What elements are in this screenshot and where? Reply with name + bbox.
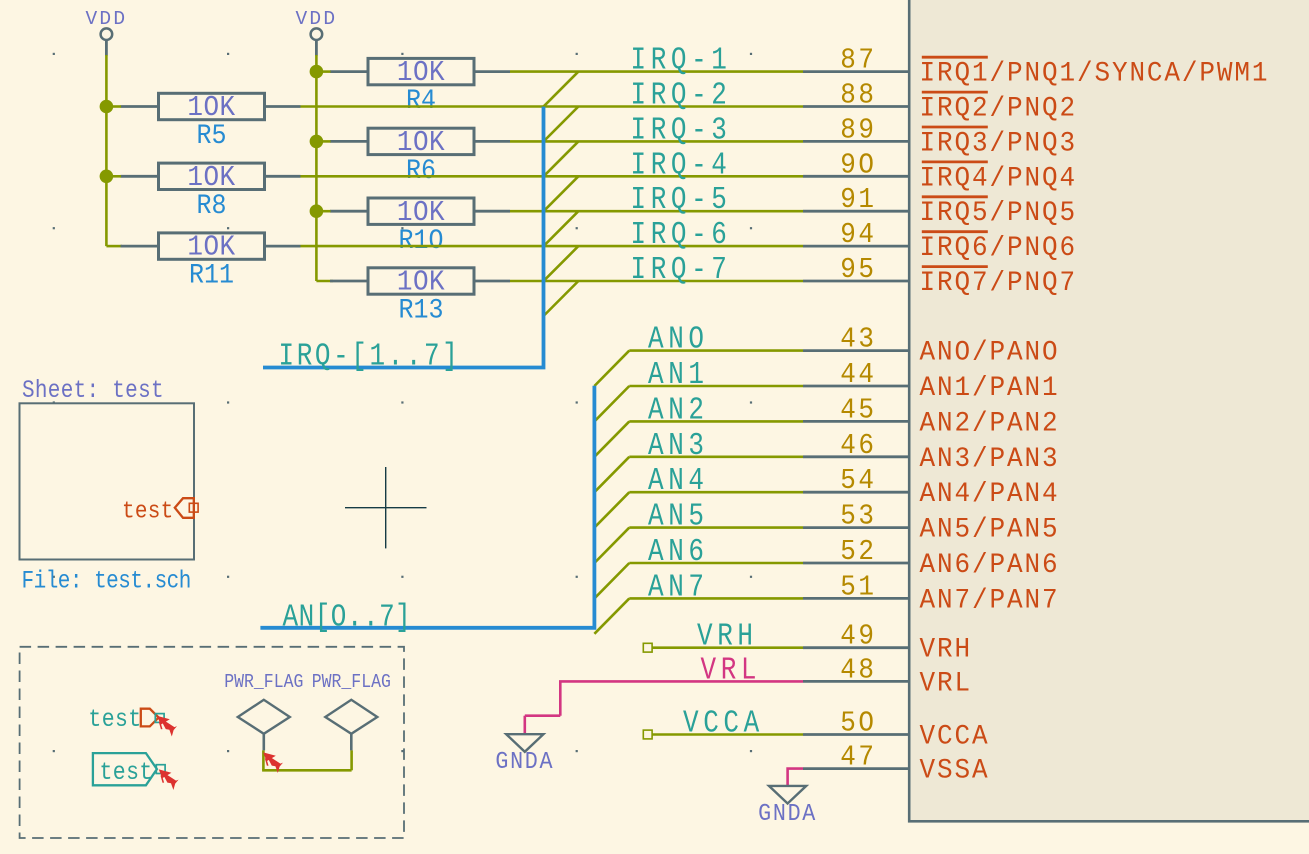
svg-text:AN2/PAN2: AN2/PAN2	[920, 408, 1060, 440]
svg-text:GNDA: GNDA	[495, 748, 554, 775]
svg-text:File: test.sch: File: test.sch	[22, 567, 191, 595]
svg-text:53: 53	[840, 501, 876, 533]
svg-text:VSSA: VSSA	[920, 755, 990, 787]
svg-text:IRQ4/PNQ4: IRQ4/PNQ4	[920, 162, 1077, 194]
svg-text:test: test	[100, 759, 153, 787]
svg-text:ANO: ANO	[648, 322, 709, 358]
svg-text:AN1: AN1	[648, 357, 709, 393]
svg-text:AN7: AN7	[648, 569, 709, 605]
svg-text:IRQ-[1..7]: IRQ-[1..7]	[279, 338, 461, 374]
svg-text:IRQ-1: IRQ-1	[631, 43, 732, 79]
svg-text:46: 46	[840, 430, 876, 462]
svg-text:95: 95	[840, 254, 876, 286]
svg-text:VDD: VDD	[296, 8, 338, 30]
svg-text:52: 52	[840, 536, 876, 568]
svg-text:43: 43	[840, 324, 876, 356]
svg-text:AN2: AN2	[648, 392, 709, 428]
svg-text:VDD: VDD	[86, 8, 128, 30]
svg-text:VCCA: VCCA	[920, 721, 990, 753]
svg-text:R13: R13	[399, 294, 444, 326]
svg-text:R1O: R1O	[399, 225, 444, 257]
svg-text:44: 44	[840, 359, 876, 391]
svg-text:51: 51	[840, 571, 876, 603]
svg-text:49: 49	[840, 621, 876, 653]
svg-text:IRQ-5: IRQ-5	[631, 182, 732, 218]
svg-text:IRQ5/PNQ5: IRQ5/PNQ5	[920, 197, 1077, 229]
svg-text:IRQ3/PNQ3: IRQ3/PNQ3	[920, 128, 1077, 160]
svg-text:94: 94	[840, 219, 876, 251]
svg-text:AN3: AN3	[648, 428, 709, 464]
svg-text:AN3/PAN3: AN3/PAN3	[920, 443, 1060, 475]
svg-text:AN5/PAN5: AN5/PAN5	[920, 514, 1060, 546]
svg-text:IRQ-4: IRQ-4	[631, 147, 732, 183]
svg-text:test: test	[88, 706, 141, 734]
svg-text:AN5: AN5	[648, 499, 709, 535]
svg-text:48: 48	[840, 654, 876, 686]
svg-text:VRH: VRH	[697, 619, 758, 655]
svg-text:VCCA: VCCA	[683, 705, 764, 741]
svg-text:89: 89	[840, 114, 876, 146]
svg-text:test: test	[122, 497, 174, 525]
svg-text:45: 45	[840, 394, 876, 426]
svg-text:IRQ7/PNQ7: IRQ7/PNQ7	[920, 267, 1077, 299]
svg-text:R6: R6	[406, 155, 436, 187]
svg-text:IRQ2/PNQ2: IRQ2/PNQ2	[920, 93, 1077, 125]
svg-text:AN4/PAN4: AN4/PAN4	[920, 478, 1060, 510]
svg-text:AN7/PAN7: AN7/PAN7	[920, 585, 1060, 617]
svg-text:AN[O..7]: AN[O..7]	[283, 599, 412, 635]
svg-text:54: 54	[840, 465, 876, 497]
svg-text:AN6: AN6	[648, 534, 709, 570]
svg-text:IRQ-3: IRQ-3	[631, 112, 732, 148]
svg-text:VRL: VRL	[920, 668, 972, 700]
svg-text:88: 88	[840, 79, 876, 111]
svg-text:PWR_FLAG: PWR_FLAG	[312, 672, 391, 693]
svg-text:IRQ1/PNQ1/SYNCA/PWM1: IRQ1/PNQ1/SYNCA/PWM1	[920, 58, 1270, 90]
svg-text:IRQ-6: IRQ-6	[631, 217, 732, 253]
svg-text:R11: R11	[189, 259, 234, 291]
svg-text:5O: 5O	[840, 707, 876, 739]
svg-text:IRQ6/PNQ6: IRQ6/PNQ6	[920, 232, 1077, 264]
svg-text:ANO/PANO: ANO/PANO	[920, 337, 1060, 369]
svg-text:GNDA: GNDA	[758, 800, 817, 827]
svg-text:PWR_FLAG: PWR_FLAG	[224, 672, 303, 693]
svg-text:VRH: VRH	[920, 634, 972, 666]
svg-text:R4: R4	[406, 85, 436, 117]
svg-text:IRQ-7: IRQ-7	[631, 252, 732, 288]
svg-text:IRQ-2: IRQ-2	[631, 77, 732, 113]
svg-text:87: 87	[840, 45, 876, 77]
svg-text:9O: 9O	[840, 149, 876, 181]
svg-text:R8: R8	[197, 190, 227, 222]
svg-text:91: 91	[840, 184, 876, 216]
svg-text:AN4: AN4	[648, 463, 709, 499]
svg-text:VRL: VRL	[701, 652, 762, 688]
svg-text:AN6/PAN6: AN6/PAN6	[920, 549, 1060, 581]
svg-text:R5: R5	[197, 120, 227, 152]
svg-text:Sheet: test: Sheet: test	[22, 376, 164, 404]
svg-text:47: 47	[840, 742, 876, 774]
svg-text:AN1/PAN1: AN1/PAN1	[920, 372, 1060, 404]
